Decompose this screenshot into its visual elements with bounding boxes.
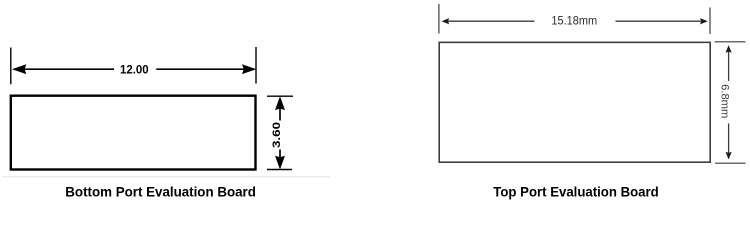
extension line bottom of 3.60 dimension [267,169,292,171]
dimension line 3.60 upper segment [279,109,281,121]
dimension line 3.60 lower segment [279,150,281,159]
arrowhead top of 6.8mm [726,46,731,52]
dimension line 6.8mm upper segment [728,51,730,81]
arrowhead right of 12.00 [243,65,256,74]
right board outline (Top Port Evaluation Board rectangle) [439,42,710,162]
faint scan artifact line under left board [2,176,330,178]
extension line left of 15.18mm dimension [438,4,440,34]
left board outline (Bottom Port Evaluation Board rectangle) [11,96,256,170]
arrowhead right of 15.18mm [701,19,707,24]
extension line bottom of 6.8mm dimension [715,162,746,164]
dimension line 15.18mm right segment [616,20,703,22]
dimension line 15.18mm left segment [448,20,535,22]
extension line right of 15.18mm dimension [709,8,711,35]
svg-text:6.8mm: 6.8mm [718,84,730,118]
svg-text:Top Port Evaluation Board: Top Port Evaluation Board [493,184,658,200]
svg-text:12.00: 12.00 [120,64,149,77]
dimension line 6.8mm lower segment [728,124,730,154]
extension line right of 12.00 dimension [255,47,257,84]
extension line top of 3.60 dimension [267,95,293,97]
arrowhead bottom of 6.8mm [726,153,731,159]
svg-text:3.60: 3.60 [271,122,283,148]
extension line top of 6.8mm dimension [715,41,746,43]
arrowhead top of 3.60 [276,97,285,109]
dimension line 12.00 left segment [14,68,114,70]
dimension line 12.00 right segment [156,68,254,70]
arrowhead bottom of 3.60 [276,156,285,168]
arrowhead left of 15.18mm [443,19,449,24]
arrowhead left of 12.00 [13,65,26,74]
svg-text:Bottom Port Evaluation Board: Bottom Port Evaluation Board [65,184,256,200]
extension line left of 12.00 dimension [10,48,12,85]
svg-text:15.18mm: 15.18mm [551,15,597,28]
